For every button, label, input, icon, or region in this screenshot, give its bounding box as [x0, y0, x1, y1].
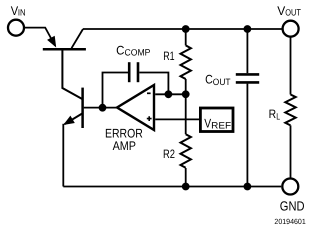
wire R2 top [185, 94, 187, 134]
wire Q1 base to Q2 collector [62, 50, 82, 99]
resistor R1 [181, 45, 191, 79]
label VOUT [277, 4, 301, 18]
node op-amp output junction [99, 104, 107, 112]
svg-text:OUT: OUT [285, 8, 301, 18]
transistor Q1 collector [72, 29, 84, 48]
label VREF [204, 116, 231, 130]
reference VREF box [200, 108, 233, 132]
svg-text:L: L [276, 112, 280, 122]
svg-text:C: C [205, 73, 213, 87]
wire VIN to Q1 emitter [25, 28, 55, 46]
wire COUT top [246, 29, 248, 73]
capacitor COUT bottom plate [236, 81, 259, 84]
node R1 R2 feedback junction [182, 90, 190, 98]
label VIN [11, 4, 26, 18]
transistor Q2 emitter [65, 114, 83, 125]
capacitor CCOMP right plate [137, 62, 140, 82]
wire op-amp non-inverting input to VREF [155, 118, 199, 120]
node CCOMP feedback junction [165, 90, 173, 98]
svg-text:R2: R2 [163, 147, 175, 161]
wire COUT bottom [246, 84, 248, 187]
svg-text:C: C [116, 43, 124, 57]
svg-text:AMP: AMP [113, 139, 136, 153]
wire RL bottom [290, 125, 292, 178]
svg-text:IN: IN [18, 8, 26, 18]
label ERROR AMP [105, 126, 143, 153]
node top rail COUT junction [244, 25, 252, 33]
op-amp U1 minus sign [147, 92, 151, 94]
resistor R2 [181, 134, 191, 168]
svg-text:R: R [269, 107, 277, 121]
capacitor COUT top plate [236, 73, 259, 76]
svg-text:20194601: 20194601 [274, 217, 305, 226]
wire VOUT to RL [290, 37, 292, 95]
wire Q2 base to op-amp output [84, 107, 118, 109]
node bottom rail R2 junction [182, 183, 190, 191]
transistor Q1 base bar [43, 48, 86, 51]
transistor Q2 base bar [81, 88, 84, 128]
svg-text:R1: R1 [163, 49, 175, 63]
transistor Q2 emitter arrowhead [63, 116, 75, 125]
svg-text:REF: REF [211, 121, 231, 131]
capacitor CCOMP left plate [128, 62, 131, 82]
terminal VOUT [283, 21, 299, 37]
op-amp U1 ERROR AMP triangle [117, 85, 154, 130]
node top rail R1 junction [182, 25, 190, 33]
terminal GND [282, 179, 298, 195]
wire R1 top [185, 29, 187, 45]
wire top rail [83, 28, 282, 30]
op-amp U1 plus sign [147, 116, 152, 121]
wire R1 bottom [185, 79, 187, 94]
wire bottom rail [63, 186, 281, 188]
label COUT [205, 73, 231, 87]
capacitor CCOMP right leg [139, 73, 168, 94]
transistor Q1 emitter arrowhead [47, 36, 56, 48]
wire R2 bottom [185, 168, 187, 187]
svg-text:COMP: COMP [125, 48, 151, 58]
svg-text:OUT: OUT [213, 77, 231, 87]
label CCOMP [116, 43, 150, 57]
capacitor CCOMP left leg [103, 73, 129, 108]
wire op-amp inverting input [155, 93, 186, 95]
terminal VIN [8, 20, 24, 36]
resistor RL [285, 95, 295, 126]
svg-text:GND: GND [280, 199, 305, 214]
node bottom rail COUT junction [244, 183, 252, 191]
label RL [269, 107, 281, 122]
wire Q2 emitter to bottom rail [62, 124, 64, 187]
